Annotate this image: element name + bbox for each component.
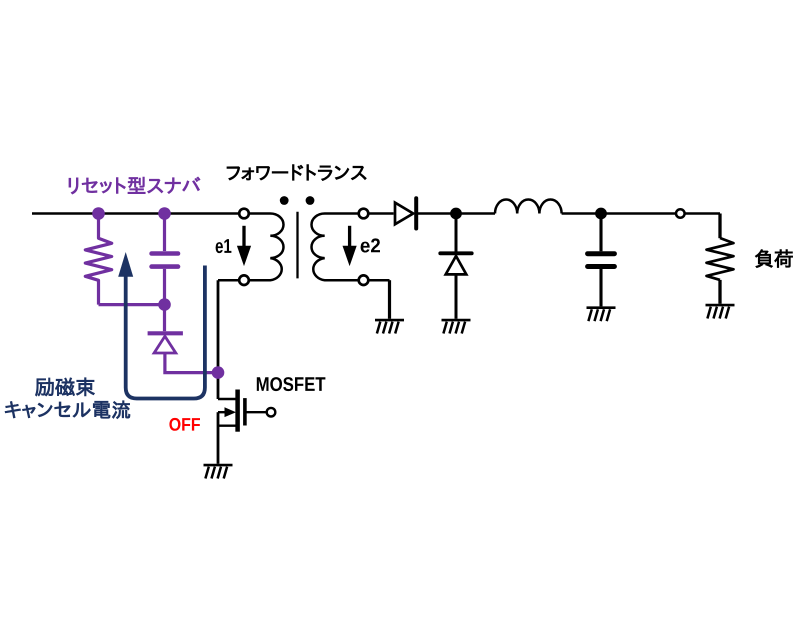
arrowhead of current loop (navy) — [118, 252, 133, 277]
current loop arrow (navy): magnetizing-flux cancel current — [126, 266, 205, 399]
wire: load resistor to ground — [718, 280, 721, 304]
label: MOSFET — [257, 377, 326, 391]
diode D snubber (purple) — [148, 305, 212, 373]
label: フォワードトランス — [227, 165, 366, 181]
junction dot: freewheel node — [450, 208, 462, 220]
junction dot: output cap node — [595, 208, 607, 220]
ground: MOSFET source — [204, 465, 233, 478]
MOSFET Q1 gate terminal — [267, 408, 276, 417]
wire: inductor to output terminal — [562, 212, 676, 214]
wire: secondary top to diode D1 — [369, 212, 394, 214]
wire: MOSFET source to ground — [217, 412, 220, 464]
terminal: output (open circle) — [676, 209, 685, 218]
junction dot: snubber left on rail (purple) — [92, 207, 105, 220]
label: OFF (red) — [169, 418, 200, 431]
wire: output terminal to load — [685, 214, 721, 239]
arrow e2 (secondary voltage) — [343, 226, 357, 266]
polarity dot secondary — [306, 196, 315, 205]
label: 負荷 — [755, 250, 792, 268]
transformer T1 secondary winding — [312, 214, 359, 281]
label: リセット型スナバ (purple) — [69, 177, 200, 194]
transformer T1 primary winding — [249, 214, 283, 281]
MOSFET Q1 source lead — [218, 425, 238, 427]
terminal: primary top — [239, 209, 249, 219]
wire: D1 to inductor — [415, 212, 495, 214]
ground: load — [706, 305, 735, 318]
capacitor C2 (output filter) — [588, 214, 615, 307]
capacitor C snubber (purple) — [152, 214, 178, 305]
resistor R snubber (purple) — [85, 214, 111, 305]
wire: primary bottom to MOSFET drain — [218, 280, 239, 399]
ground: freewheel diode — [442, 320, 471, 333]
wire: input rail left — [32, 212, 239, 214]
junction dot: R-C-D node (purple) — [158, 298, 171, 311]
transformer T1 core — [296, 212, 298, 279]
MOSFET Q1 channel bar — [235, 390, 240, 432]
terminal: secondary bottom — [359, 275, 369, 285]
resistor R load — [707, 238, 734, 280]
terminal: primary bottom — [239, 275, 249, 285]
MOSFET Q1 gate lead — [247, 411, 266, 413]
diode D1 (series rectifier) — [395, 198, 416, 228]
inductor L1 — [495, 199, 562, 213]
wire: secondary bottom to ground — [369, 280, 390, 319]
ground: secondary bottom — [375, 320, 404, 333]
ground: output capacitor — [587, 308, 616, 321]
polarity dot primary — [280, 196, 289, 205]
label e2 — [361, 238, 380, 252]
arrow e1 (primary voltage) — [237, 226, 251, 266]
diode D2 (freewheel) — [440, 214, 471, 319]
label: 励磁束 (navy) — [35, 378, 94, 396]
MOSFET Q1 gate bar — [243, 398, 247, 425]
junction dot: snubber right on rail (purple) — [158, 207, 171, 220]
junction dot: snubber to drain wire (purple) — [212, 366, 225, 379]
label e1 — [216, 239, 232, 253]
terminal: secondary top — [359, 209, 369, 219]
MOSFET Q1 body arrow lead — [218, 407, 236, 417]
label: キャンセル電流 (navy) — [5, 401, 130, 419]
wire: snubber R bottom to C bottom node (purple) — [99, 303, 165, 306]
